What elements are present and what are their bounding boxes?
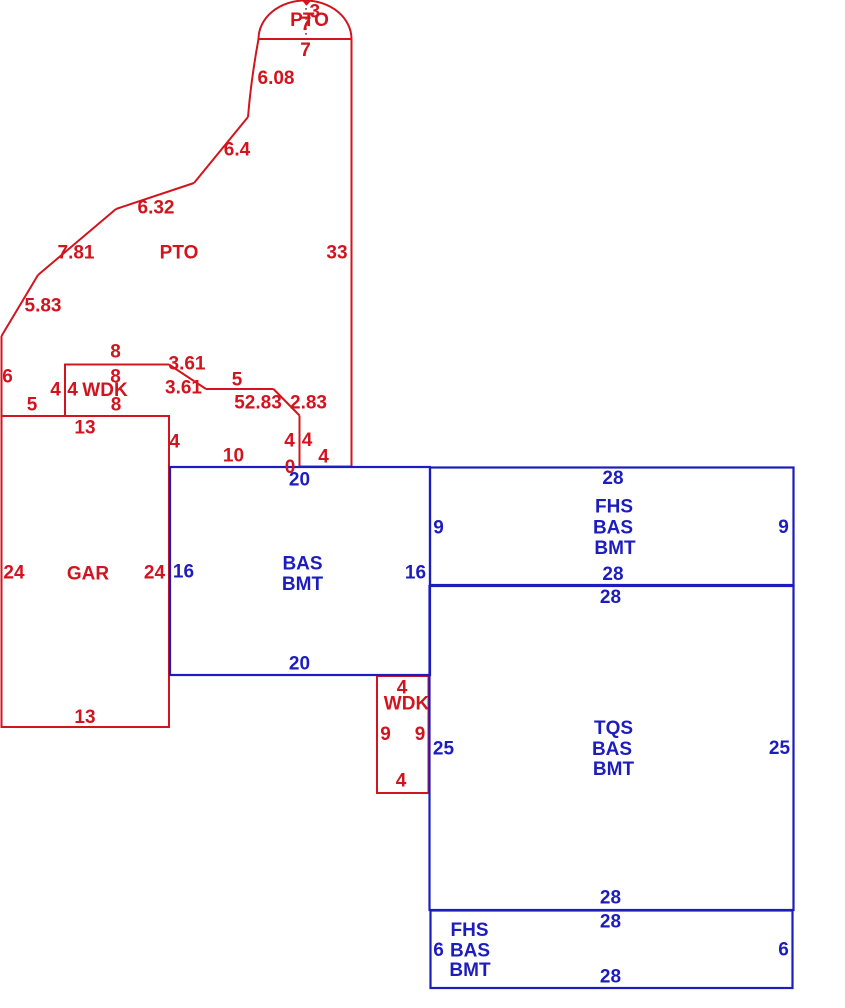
- svg-text:20: 20: [289, 654, 310, 675]
- wire: diagonal 3.61: [169, 365, 206, 390]
- wire: PTO bottom edge 4: [300, 466, 352, 468]
- svg-text:2.83: 2.83: [290, 393, 327, 414]
- svg-text:9: 9: [778, 517, 789, 538]
- svg-text:4: 4: [169, 432, 180, 453]
- svg-text:5.83: 5.83: [25, 296, 62, 317]
- svg-text:BMT: BMT: [282, 574, 324, 595]
- svg-text:13: 13: [74, 707, 95, 728]
- wire: PTO left edge 5.83: [2, 275, 39, 336]
- svg-text:25: 25: [769, 738, 791, 759]
- svg-text:6: 6: [778, 940, 789, 961]
- svg-text:4: 4: [284, 431, 295, 452]
- svg-text:BAS: BAS: [593, 518, 633, 539]
- svg-text:52.83: 52.83: [234, 393, 282, 414]
- svg-text:BMT: BMT: [593, 759, 635, 780]
- svg-text:BAS: BAS: [592, 739, 632, 760]
- garage GAR outline: [2, 416, 170, 727]
- svg-text:33: 33: [326, 243, 347, 264]
- svg-text:16: 16: [405, 563, 426, 584]
- svg-text:8: 8: [110, 342, 121, 363]
- PTO chord line 7: [259, 38, 352, 40]
- wire: PTO left edge 7.81: [38, 209, 116, 275]
- svg-text:6.4: 6.4: [224, 140, 251, 161]
- wire: left vertical edge 6: [1, 336, 3, 416]
- svg-text:BAS: BAS: [450, 941, 490, 962]
- svg-text:28: 28: [602, 468, 623, 489]
- svg-text:20: 20: [289, 470, 310, 491]
- wire: PTO right edge 33: [351, 39, 353, 467]
- svg-text:16: 16: [173, 562, 194, 583]
- svg-text:6.08: 6.08: [258, 68, 295, 89]
- svg-text:3.61: 3.61: [169, 354, 206, 375]
- svg-text:4: 4: [302, 430, 313, 451]
- svg-text:28: 28: [600, 967, 621, 988]
- svg-text:4: 4: [318, 447, 329, 468]
- svg-text:4: 4: [50, 380, 61, 401]
- WDK upper deck outline: [65, 365, 169, 417]
- svg-text:FHS: FHS: [451, 920, 489, 941]
- svg-text:6: 6: [2, 367, 13, 388]
- svg-text:BMT: BMT: [594, 538, 636, 559]
- svg-text:28: 28: [600, 912, 621, 933]
- BAS BMT room outline: [170, 467, 430, 675]
- svg-text:5: 5: [27, 395, 38, 416]
- svg-text:28: 28: [602, 564, 623, 585]
- svg-text:7: 7: [300, 40, 311, 61]
- svg-text:6: 6: [433, 940, 444, 961]
- svg-text:7.81: 7.81: [58, 243, 95, 264]
- svg-text:3.61: 3.61: [165, 378, 202, 399]
- svg-text:6.32: 6.32: [138, 198, 175, 219]
- wire: PTO left edge 6.08: [248, 39, 259, 117]
- svg-text:13: 13: [74, 418, 95, 439]
- svg-text:25: 25: [433, 739, 455, 760]
- wire: horizontal 5: [206, 388, 274, 390]
- wire: vertical 4 below diagonal: [299, 416, 301, 467]
- svg-text:TQS: TQS: [594, 718, 633, 739]
- svg-text:28: 28: [600, 587, 621, 608]
- TQS BAS BMT room outline: [430, 586, 794, 910]
- svg-text:4: 4: [67, 380, 78, 401]
- svg-text:4: 4: [396, 771, 407, 792]
- svg-text:BMT: BMT: [449, 960, 491, 981]
- svg-text:10: 10: [223, 446, 244, 467]
- wire: PTO left edge 6.4: [194, 117, 248, 183]
- PTO arc top: [259, 1, 352, 40]
- svg-text:9: 9: [433, 518, 444, 539]
- svg-text:WDK: WDK: [82, 380, 128, 401]
- wire: diagonal 2.83: [274, 389, 300, 416]
- svg-text:9: 9: [380, 724, 391, 745]
- svg-text:7: 7: [301, 14, 312, 35]
- svg-text:WDK: WDK: [384, 694, 430, 715]
- WDK lower deck outline: [377, 676, 429, 793]
- arc rise arrow: [302, 0, 312, 6]
- svg-text:9: 9: [415, 724, 426, 745]
- svg-text:28: 28: [600, 888, 621, 909]
- svg-text:PTO: PTO: [160, 243, 199, 264]
- svg-text:GAR: GAR: [67, 564, 110, 585]
- svg-text:5: 5: [232, 370, 243, 391]
- FHS BAS BMT upper room outline: [430, 468, 794, 586]
- arc rise dotted line: [305, 3, 307, 38]
- svg-text:BAS: BAS: [282, 554, 322, 575]
- svg-text:FHS: FHS: [595, 497, 633, 518]
- svg-text:24: 24: [144, 563, 166, 584]
- svg-text:24: 24: [3, 563, 25, 584]
- wire: PTO left edge 6.32: [116, 183, 194, 209]
- FHS BAS BMT lower room outline: [431, 911, 793, 989]
